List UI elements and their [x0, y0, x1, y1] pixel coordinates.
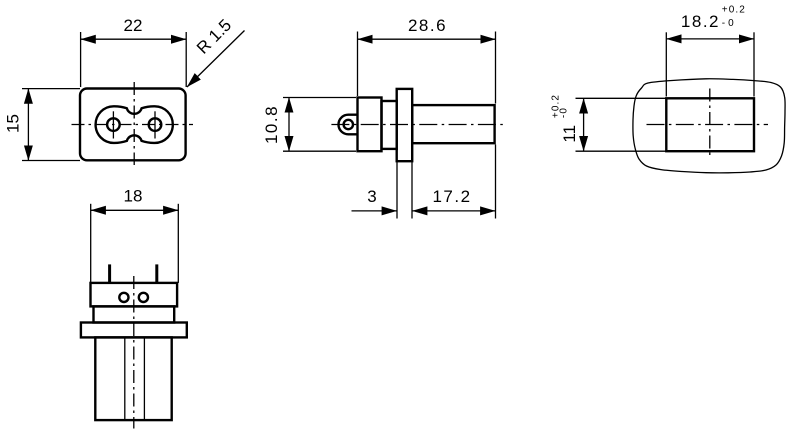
svg-text:17.2: 17.2	[432, 187, 471, 206]
body inner edge L	[124, 337, 126, 420]
face hole L	[119, 293, 128, 302]
eyelet hole	[344, 120, 353, 129]
dim 28.6 line	[358, 38, 496, 40]
dim 22 extension line left	[80, 32, 82, 87]
svg-text:-0: -0	[558, 107, 569, 118]
R 1.5 leader	[187, 31, 245, 88]
svg-text:11: 11	[560, 125, 579, 143]
pin L blade	[108, 264, 111, 283]
dim 11 extension line top	[576, 97, 667, 99]
front view vertical centerline	[133, 82, 135, 165]
dim 18.2 extension line left	[665, 32, 667, 96]
figure-8 aperture	[96, 106, 173, 143]
dim 22 extension line right	[185, 32, 187, 87]
dim 22 line	[81, 38, 187, 40]
dim 18.2 line	[666, 38, 754, 40]
dim 10.8 extension line bottom	[283, 150, 356, 152]
pin R blade	[155, 264, 158, 283]
svg-text:10.8: 10.8	[262, 105, 281, 144]
svg-text:28.6: 28.6	[408, 16, 447, 35]
svg-text:22: 22	[124, 16, 143, 35]
face hole R	[139, 293, 148, 302]
rear view horizontal centerline	[647, 124, 769, 126]
face block	[91, 283, 178, 307]
svg-text:15: 15	[4, 114, 23, 133]
panel cutout freehand outline	[633, 79, 785, 173]
dim 11 line	[583, 98, 585, 151]
pin L front	[107, 118, 120, 131]
pin R axis tick	[154, 111, 156, 138]
body bottom view	[95, 337, 171, 420]
dim 18 line	[91, 209, 179, 211]
front view body outline	[80, 89, 186, 161]
cutout rectangle	[666, 98, 754, 151]
dim 10.8 extension line top	[283, 97, 356, 99]
pin R front	[149, 118, 162, 131]
dim 3 leader	[352, 210, 397, 212]
step section side	[382, 101, 397, 149]
dim 11 text	[551, 94, 580, 143]
svg-text:+0.2: +0.2	[722, 5, 746, 16]
front view horizontal centerline	[72, 124, 194, 126]
dim 28.6 extension line right	[495, 32, 497, 104]
dim 15 extension line bottom	[22, 160, 80, 162]
svg-text:18.2: 18.2	[681, 12, 720, 31]
dim 10.8 line	[288, 98, 290, 152]
eyelet outer	[339, 115, 358, 135]
flange bottom view	[81, 323, 187, 338]
dim 28.6 extension line left	[357, 32, 359, 97]
dim 18.2 extension line right	[753, 32, 755, 96]
cylinder end extension line	[495, 145, 497, 219]
flange side	[397, 89, 413, 161]
dim 18 extension line right	[177, 204, 179, 283]
svg-text:R 1.5: R 1.5	[193, 16, 235, 58]
bottom view vertical centerline	[133, 276, 135, 429]
svg-text:- 0: - 0	[722, 18, 735, 29]
side view centerline	[331, 124, 503, 126]
dim 15 line	[27, 89, 29, 161]
svg-text:3: 3	[367, 187, 376, 206]
pin L axis tick	[112, 111, 114, 138]
dim 18 extension line left	[90, 204, 92, 283]
svg-text:18: 18	[124, 187, 143, 206]
cylinder body side	[412, 105, 494, 143]
flange extension line left	[396, 161, 398, 218]
dim 15 extension line top	[22, 88, 80, 90]
rear view vertical centerline	[709, 89, 711, 158]
dim 17.2 line	[412, 210, 495, 212]
body inner edge R	[143, 337, 145, 420]
dim 11 extension line bottom	[576, 150, 667, 152]
front block side	[358, 98, 382, 152]
mid section	[94, 306, 175, 322]
flange extension line right	[411, 161, 413, 218]
